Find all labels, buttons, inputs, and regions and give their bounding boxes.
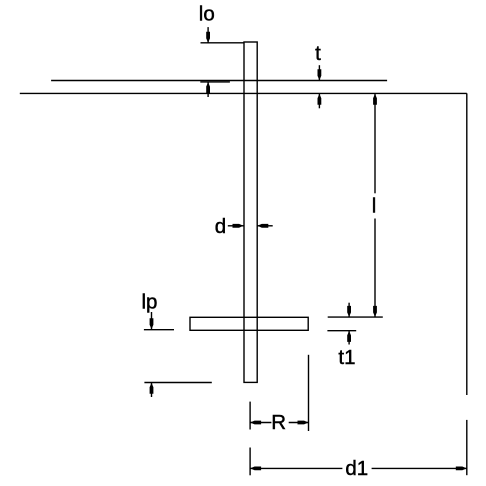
svg-text:t1: t1 [338,346,355,369]
svg-text:d: d [215,215,226,238]
svg-text:R: R [271,411,286,434]
svg-text:lo: lo [199,3,215,26]
svg-text:lp: lp [142,290,158,313]
svg-text:d1: d1 [345,457,368,480]
svg-text:l: l [372,194,377,217]
svg-text:t: t [315,42,321,65]
